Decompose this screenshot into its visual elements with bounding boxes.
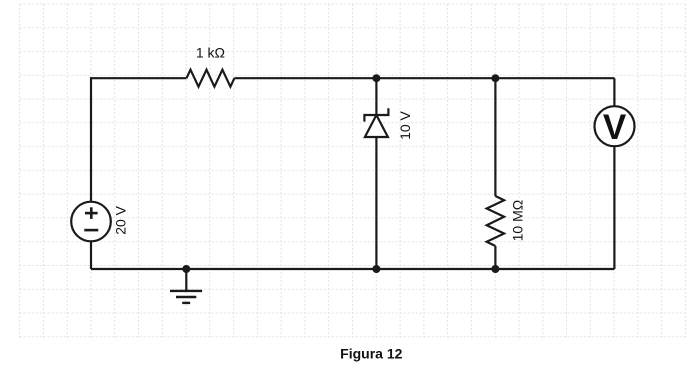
svg-text:10 V: 10 V <box>397 110 413 139</box>
svg-text:V: V <box>603 108 627 147</box>
svg-text:Figura 12: Figura 12 <box>340 346 402 362</box>
svg-text:20 V: 20 V <box>112 205 128 234</box>
svg-text:1 kΩ: 1 kΩ <box>196 45 225 61</box>
svg-text:10 MΩ: 10 MΩ <box>510 200 526 242</box>
